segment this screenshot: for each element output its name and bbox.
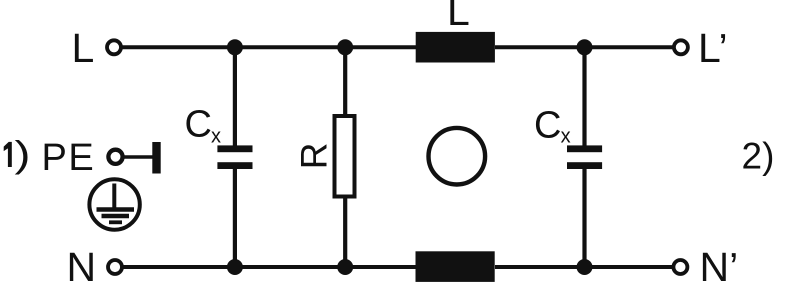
capacitor Cx right plates [567,145,602,169]
earth bar long [97,207,135,212]
terminal N' [673,260,687,274]
svg-text:x: x [561,126,571,148]
junction top-left [227,39,243,55]
wire branch Cx right upper [582,47,586,146]
svg-text:PE: PE [42,137,96,179]
junction bottom-mid [337,259,353,275]
choke winding bottom [416,251,495,282]
junction bottom-left [227,259,243,275]
terminal N [108,260,122,274]
protective earth symbol circle [89,179,139,229]
svg-text:): ) [15,134,31,175]
junction top-mid [337,39,353,55]
wire branch Cx left upper [233,47,237,146]
earth vertical stroke [112,184,116,210]
wire branch R lower [343,197,347,267]
choke core circle [429,128,486,185]
svg-text:x: x [211,126,221,148]
svg-text:N: N [67,244,97,282]
wire bottom-right choke to N' [495,265,673,269]
wire top-right choke to L' [495,45,673,49]
svg-text:N’: N’ [700,244,739,282]
svg-text:C: C [534,105,561,147]
svg-text:L’: L’ [698,25,728,71]
terminal L' [674,40,688,54]
PE terminal bar [152,142,160,174]
earth bar short [109,220,122,224]
svg-text:L: L [72,25,95,71]
terminal L [107,40,121,54]
wire top-left L to choke [122,45,416,49]
wire branch Cx left lower [233,168,237,267]
svg-text:R: R [294,142,335,169]
svg-text:L: L [447,0,470,34]
PE terminal wire [124,155,153,159]
junction top-right [577,39,593,55]
wire branch Cx right lower [582,168,586,267]
earth bar middle [102,214,130,218]
resistor R body [335,116,355,197]
capacitor Cx left plates [217,145,252,169]
junction bottom-right [577,259,593,275]
svg-text:C: C [185,104,212,146]
choke winding top (L) [416,32,495,63]
svg-text:2): 2) [742,135,775,176]
wire branch R upper [343,47,347,116]
PE terminal circle [108,150,122,164]
footnote 1) [4,142,12,167]
wire bottom-left N to choke [123,265,416,269]
